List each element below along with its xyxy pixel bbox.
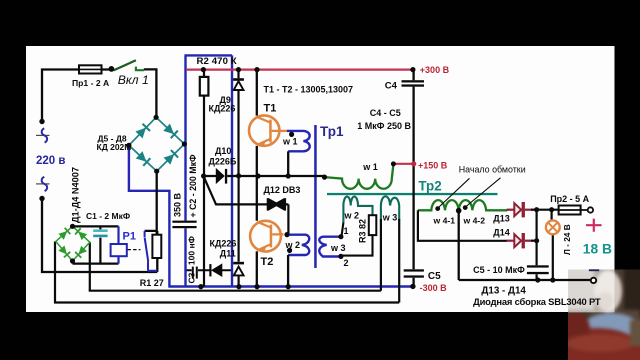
diode D2 bbox=[74, 228, 86, 240]
minus symbol output (navy) bbox=[589, 269, 599, 271]
node w1 bottom junction bbox=[286, 173, 291, 178]
node Tp2 w1 start bbox=[322, 175, 327, 180]
svg-text:2: 2 bbox=[344, 258, 349, 268]
fuse Pr1-2A bbox=[79, 65, 102, 73]
node +150V red dot bbox=[411, 161, 416, 166]
node fuse-switch junction bbox=[109, 66, 115, 72]
svg-text:350 В: 350 В bbox=[173, 192, 183, 217]
svg-text:T1: T1 bbox=[264, 102, 277, 114]
wire: D9 branch bbox=[237, 70, 239, 176]
node lamp bottom on minus rail bbox=[550, 277, 555, 282]
svg-text:T1 - Т2 - 13005,13007: T1 - Т2 - 13005,13007 bbox=[264, 85, 354, 95]
wire: 220V lower left bbox=[42, 199, 157, 273]
capacitor C5 bbox=[404, 269, 424, 271]
diode D14 bbox=[507, 240, 515, 242]
capacitor C1 (teal) bbox=[99, 226, 101, 263]
wire blue: rail x=232 down to bottom rail bbox=[231, 55, 233, 286]
wire blue: plus rail x=185.5 from box top through C2 to bottom rail bbox=[184, 56, 186, 286]
diode D6 bbox=[163, 124, 178, 139]
svg-text:R2 470 К: R2 470 К bbox=[197, 56, 237, 67]
diode D13 bbox=[507, 209, 515, 211]
svg-text:+ С2 - 200 МкФ: + С2 - 200 МкФ bbox=[188, 154, 198, 217]
svg-text:Начало обмотки: Начало обмотки bbox=[459, 164, 526, 174]
diac D12 DB3 bbox=[267, 198, 286, 210]
node w4-1 winding-start dot bbox=[435, 206, 440, 211]
transformer Tp2 core line bbox=[327, 193, 498, 195]
wire: w1 bottom to mid node bbox=[287, 151, 289, 176]
node bridge2 plus bbox=[70, 224, 75, 229]
svg-text:Д14: Д14 bbox=[493, 227, 509, 237]
node bridge1 plus bbox=[182, 141, 187, 146]
node T1 collector on +300V rail bbox=[254, 67, 259, 72]
svg-text:w 1: w 1 bbox=[282, 137, 298, 147]
transformer Tp1 winding w3 (blue) bbox=[319, 237, 341, 257]
capacitor C2 bars bbox=[172, 221, 196, 223]
node bridge1 AC bottom bbox=[154, 169, 159, 174]
transistor T2 bbox=[250, 221, 283, 252]
AC source sine symbol upper bbox=[36, 134, 50, 136]
wire: w4 center tap down and output minus rail bbox=[459, 210, 591, 280]
svg-text:Тр2: Тр2 bbox=[418, 179, 441, 194]
transformer Tp2 winding w3 (dark teal) bbox=[381, 196, 399, 220]
node D9-D10 junction bbox=[236, 173, 241, 178]
node T2 emitter on 0V rail bbox=[254, 284, 259, 289]
wire: w4 left loop to D14 bbox=[418, 210, 507, 241]
node bridge1 minus bbox=[126, 143, 131, 148]
diode D7 bbox=[136, 151, 151, 166]
svg-text:w 4-2: w 4-2 bbox=[463, 215, 486, 225]
svg-text:КД226: КД226 bbox=[210, 239, 237, 249]
diode bridge D5-D8 KD202M (teal) bbox=[129, 117, 185, 171]
baby photo bottom-right bbox=[550, 266, 640, 360]
node bridge1 AC top bbox=[154, 115, 159, 120]
wire: rectifier output node bbox=[531, 210, 559, 241]
svg-text:КД226: КД226 bbox=[209, 104, 236, 114]
wire: w2 bottom to blue rail bbox=[287, 255, 289, 287]
node T1 emitter junction bbox=[255, 173, 260, 178]
winding start pointer lines bbox=[438, 178, 501, 208]
node w4-2 winding-start dot bbox=[463, 205, 468, 210]
main vertical +300/C4/+150/C5 bbox=[412, 70, 414, 287]
wire: T2 emitter down to blue rail bbox=[256, 251, 258, 286]
node bridge2 minus bbox=[70, 258, 75, 263]
node AC source top terminal bbox=[39, 119, 44, 124]
node -300V C5 junction bbox=[410, 284, 415, 289]
transistor T1 bbox=[249, 115, 287, 146]
wire: bridge2 top feed to relay/C1 bbox=[73, 226, 119, 290]
diode D11 KD226 (vertical) bbox=[238, 176, 240, 287]
node C5out bottom on minus rail bbox=[535, 277, 540, 282]
resistor R3 82 bbox=[369, 215, 377, 235]
node C4 on +300V rail bbox=[410, 67, 415, 72]
svg-text:w 1: w 1 bbox=[362, 162, 378, 172]
svg-text:+300 В: +300 В bbox=[420, 65, 450, 75]
node Tp2 w1 end bbox=[391, 161, 396, 166]
plus symbol output (crimson) bbox=[586, 219, 602, 232]
svg-text:-300 В: -300 В bbox=[420, 283, 448, 293]
transformer Tp2 winding w1 (green) with taps bbox=[325, 164, 394, 189]
svg-text:w 4-1: w 4-1 bbox=[433, 215, 456, 225]
wire: T1 collector from +300 rail bbox=[256, 70, 258, 116]
output terminal + bbox=[588, 207, 593, 212]
node w4 center tap bbox=[456, 208, 462, 214]
bottom black rail outer y=302.5 bbox=[54, 242, 399, 303]
wire: R2 leg down to bottom blue rail bbox=[203, 70, 205, 287]
svg-text:Д1-Д4 N4007: Д1-Д4 N4007 bbox=[70, 167, 80, 223]
transformer Tp2 winding w4 (green) bbox=[418, 200, 507, 210]
svg-text:Пр1 - 2 А: Пр1 - 2 А bbox=[72, 78, 109, 88]
transformer Tp1 winding w1 (blue) bbox=[287, 131, 310, 151]
wire: mid horizontal node y=176 bbox=[204, 175, 325, 177]
wire: w3 legs down to black rails bbox=[381, 219, 399, 303]
relay linkage dashed bbox=[128, 249, 141, 251]
node Tp1 w1 winding-start dot bbox=[289, 132, 294, 137]
diode D10 D226B bbox=[216, 169, 224, 183]
diode D1 bbox=[59, 227, 71, 239]
svg-text:w 2: w 2 bbox=[285, 240, 301, 250]
node D11 anode on 0V rail bbox=[236, 284, 241, 289]
wire: bridge1 bottom to R1 top, parallel relay contact bar bbox=[145, 171, 158, 235]
svg-text:Д13: Д13 bbox=[493, 214, 509, 224]
transformer Tp1 core bbox=[314, 125, 317, 268]
svg-text:С1 - 2 МкФ: С1 - 2 МкФ bbox=[86, 211, 130, 221]
wire: T1 emitter / T2 collector vertical bbox=[256, 146, 258, 221]
svg-text:Тр1: Тр1 bbox=[320, 124, 344, 139]
node Tp1 w3 pin 1 bbox=[338, 234, 343, 239]
wire blue: bridge1 minus down-right-down to bottom blue rail and rail to C5 node bbox=[129, 145, 413, 286]
wire: 220V left branch with fuse bbox=[42, 69, 156, 121]
svg-text:Д11: Д11 bbox=[220, 249, 236, 259]
transformer Tp1 winding w2 (blue) bbox=[287, 235, 310, 255]
node D14 cathode junction bbox=[534, 238, 539, 243]
fuse Pr2-5A bbox=[559, 206, 581, 215]
resistor R1 bbox=[152, 235, 161, 258]
wire: diagonal to diac and T2 base bbox=[204, 176, 289, 234]
svg-text:Пр2 - 5 А: Пр2 - 5 А bbox=[550, 194, 589, 204]
diode D9 KD226 bbox=[234, 81, 244, 90]
svg-text:R3 82: R3 82 bbox=[358, 219, 368, 243]
relay coil P1 (blue box) bbox=[117, 226, 119, 263]
diode bridge D1-D4 N4007 (green) bbox=[56, 226, 90, 261]
svg-text:C5: C5 bbox=[428, 271, 441, 282]
svg-text:R1 27: R1 27 bbox=[140, 278, 164, 288]
node T2 base junction bbox=[284, 232, 289, 237]
switch Vkl1 blade (green) bbox=[114, 60, 136, 70]
svg-text:C4: C4 bbox=[385, 80, 398, 91]
svg-text:Вкл 1: Вкл 1 bbox=[118, 73, 149, 87]
svg-text:T2: T2 bbox=[261, 256, 274, 268]
svg-text:Д226Б: Д226Б bbox=[209, 156, 237, 166]
svg-text:220 в: 220 в bbox=[36, 155, 65, 167]
lamp L-24V bbox=[552, 210, 553, 280]
svg-text:w 3: w 3 bbox=[382, 213, 398, 223]
capacitor C4 bbox=[402, 80, 425, 82]
diode D5 bbox=[136, 123, 151, 138]
bottom black rail inner y=290.7 bbox=[89, 290, 381, 292]
diode (horizontal, arrow left) bbox=[209, 264, 211, 276]
node D13 cathode junction bbox=[534, 207, 539, 212]
node D9 top on +300V rail bbox=[236, 67, 241, 72]
svg-text:С5 - 10 МкФ: С5 - 10 МкФ bbox=[473, 265, 525, 275]
diode D4 bbox=[75, 246, 87, 258]
node AC source bottom terminal bbox=[39, 196, 44, 201]
svg-text:+150 В: +150 В bbox=[418, 160, 448, 170]
crimson +150V tap bbox=[393, 163, 413, 165]
node lamp top junction bbox=[549, 207, 554, 212]
svg-text:1 МкФ 250 В: 1 МкФ 250 В bbox=[357, 121, 411, 131]
svg-text:Р1: Р1 bbox=[123, 231, 136, 243]
node R2 top on +300V rail bbox=[201, 67, 206, 72]
svg-text:С3 - 100 нФ: С3 - 100 нФ bbox=[187, 236, 197, 283]
node Tp1 w2 winding-start dot bbox=[287, 248, 292, 253]
svg-text:18 В: 18 В bbox=[583, 241, 612, 256]
wire blue: top jumper y=55.4 bbox=[184, 54, 232, 56]
svg-text:C4 - C5: C4 - C5 bbox=[370, 108, 401, 118]
svg-text:Диодная сборка SBL3040 РТ: Диодная сборка SBL3040 РТ bbox=[473, 296, 601, 307]
diode D8 bbox=[164, 149, 179, 164]
crimson +300V rail bbox=[186, 68, 413, 70]
AC source sine symbol lower bbox=[36, 183, 50, 185]
node Tp1 w3 pin 2 bbox=[338, 254, 343, 259]
svg-text:1: 1 bbox=[344, 226, 349, 236]
schematic page bbox=[26, 46, 615, 312]
relay contact P1 (blue) bbox=[145, 231, 158, 271]
diode D3 bbox=[59, 246, 71, 258]
transformer Tp2 winding w2 (dark teal) bbox=[343, 197, 372, 223]
svg-text:Д10: Д10 bbox=[215, 146, 231, 156]
svg-text:Л - 24 В: Л - 24 В bbox=[562, 224, 572, 255]
svg-text:КД 202М: КД 202М bbox=[97, 142, 132, 152]
node R2 bottom on 0V rail bbox=[198, 284, 203, 289]
svg-text:Д12 DB3: Д12 DB3 bbox=[264, 185, 301, 195]
svg-text:w 3: w 3 bbox=[330, 243, 346, 253]
capacitor C5 10uF output bbox=[535, 241, 537, 280]
node R2-D10 junction bbox=[201, 173, 206, 178]
node Tp1 w2 bottom on 0V rail bbox=[286, 284, 291, 289]
output terminal - bbox=[591, 278, 596, 283]
capacitor C3 (bars) with series diode D11a to rail x232 bbox=[187, 269, 232, 271]
resistor R2 bbox=[200, 77, 209, 96]
